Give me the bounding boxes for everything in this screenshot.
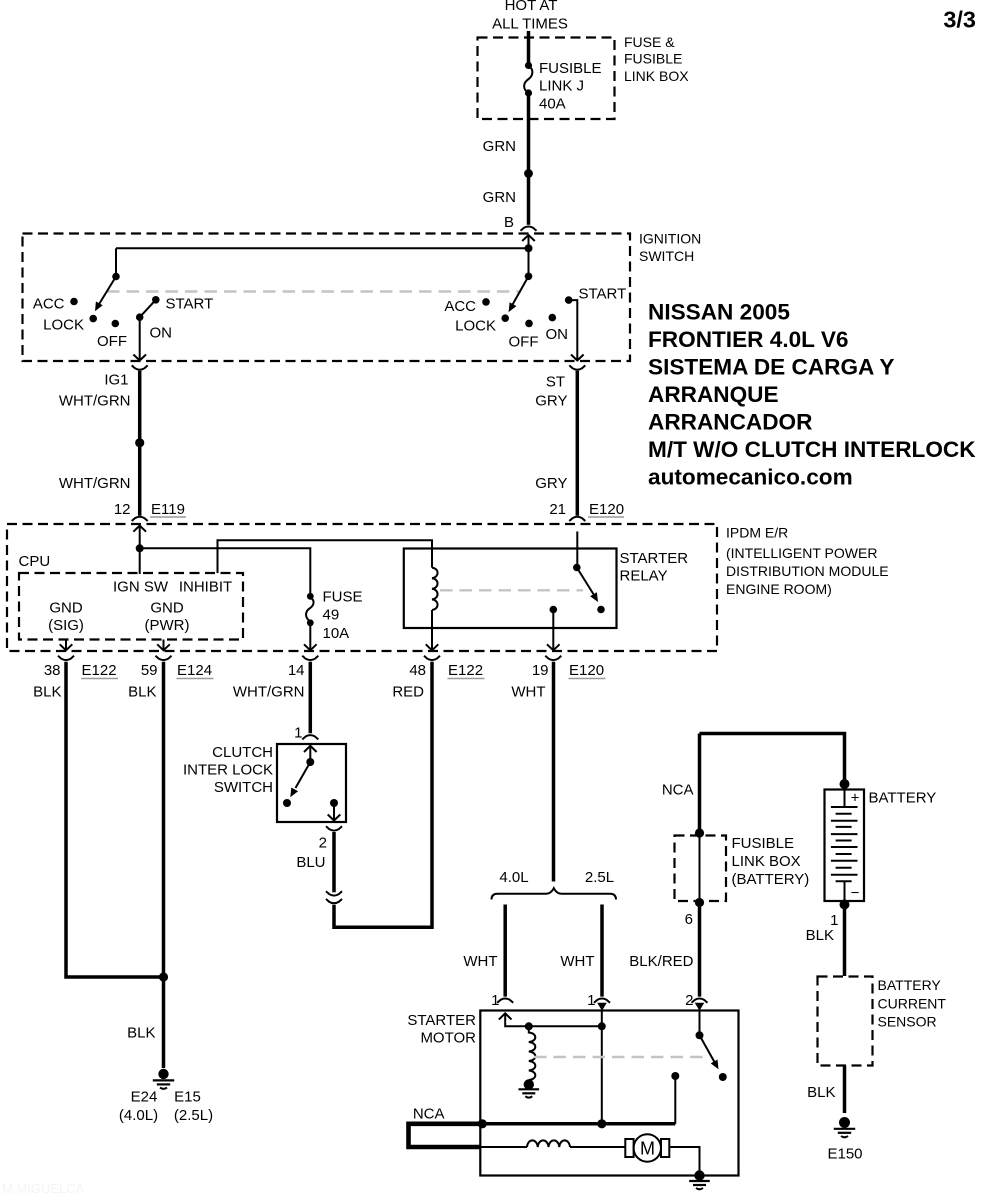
svg-text:ARRANQUE: ARRANQUE <box>648 382 779 407</box>
wire GRY ST to IPDM pin 21 <box>535 371 577 516</box>
starter relay coil <box>432 568 438 610</box>
svg-text:LINK BOX: LINK BOX <box>624 68 689 84</box>
svg-text:GND: GND <box>49 600 83 617</box>
entry arrow (filled) starter pin 1 (2.5L) <box>597 1003 607 1011</box>
svg-text:59: 59 <box>141 662 158 679</box>
connector cup pin 59 <box>156 656 172 660</box>
svg-text:+: + <box>851 790 860 807</box>
svg-text:(INTELLIGENT POWER: (INTELLIGENT POWER <box>726 545 877 561</box>
right switch feed wire <box>528 248 530 276</box>
relay output contact to pin 19 <box>550 606 558 614</box>
svg-text:START: START <box>166 296 214 313</box>
svg-text:FUSIBLE: FUSIBLE <box>732 835 795 852</box>
GND (PWR) pin label <box>145 600 190 635</box>
junction on GRN wire <box>524 169 533 178</box>
battery positive terminal junction <box>840 779 850 789</box>
svg-text:SWITCH: SWITCH <box>214 779 273 796</box>
title text block <box>648 300 976 490</box>
svg-text:1: 1 <box>491 992 499 1009</box>
svg-text:ARRANCADOR: ARRANCADOR <box>648 410 812 435</box>
svg-text:E150: E150 <box>827 1146 862 1163</box>
label IPDM E/R (INTELLIGENT POWER DISTRIBUTION MODULE ENGINE ROOM) <box>726 525 889 598</box>
svg-text:automecanico.com: automecanico.com <box>648 465 853 490</box>
wire relay output to pin 19 exit arrow <box>547 610 560 651</box>
right switch pivot <box>525 273 533 281</box>
ground symbol (solenoid coil) <box>519 1089 540 1097</box>
svg-text:48: 48 <box>409 662 426 679</box>
wire START contact to ST exit arrow <box>569 300 584 360</box>
battery negative terminal junction / pin 1 <box>840 900 850 910</box>
svg-text:E124: E124 <box>177 662 212 679</box>
svg-text:WHT/GRN: WHT/GRN <box>59 475 131 492</box>
wire WHT (2.5L) to starter motor pin 1 <box>600 905 604 997</box>
fuse 49 10A (element symbol) <box>306 593 314 626</box>
entry arrow starter pin 1 (4.0L) inside box <box>499 1013 529 1026</box>
svg-text:BLK: BLK <box>806 927 834 944</box>
left switch contact OFF <box>112 320 120 328</box>
wire motor to ground <box>669 1147 699 1176</box>
relay contact (movable) <box>573 564 581 572</box>
left switch contact ACC <box>70 298 78 306</box>
clutch switch arm <box>290 762 310 797</box>
svg-text:STARTER: STARTER <box>407 1012 476 1029</box>
junction solenoid coil top <box>525 1022 533 1030</box>
junction pin 1 (2.5L) at bus <box>597 1119 606 1128</box>
svg-text:LINK BOX: LINK BOX <box>732 853 801 870</box>
svg-text:OFF: OFF <box>509 334 539 351</box>
svg-text:FUSE &: FUSE & <box>624 34 675 50</box>
svg-text:BATTERY: BATTERY <box>869 790 937 807</box>
svg-text:−: − <box>851 885 860 902</box>
entry arrow into clutch switch <box>304 746 317 762</box>
wire BLU clutch pin 2 down <box>332 832 336 892</box>
entry arrow pin B into ignition switch <box>522 235 535 248</box>
svg-text:WHT/GRN: WHT/GRN <box>59 393 131 410</box>
svg-text:(SIG): (SIG) <box>48 617 84 634</box>
solenoid switch contact (movable) <box>696 1031 704 1039</box>
battery internal cells <box>831 790 858 902</box>
svg-text:BLK: BLK <box>127 1025 155 1042</box>
pin 14 labels <box>233 662 305 701</box>
svg-text:IGNITION: IGNITION <box>639 231 701 247</box>
svg-text:E119: E119 <box>151 501 185 518</box>
svg-text:ON: ON <box>150 325 173 342</box>
connector cup IG1 exit <box>132 365 148 369</box>
wire IGN SW into CPU <box>139 548 141 574</box>
left switch feed wire <box>115 248 117 276</box>
connector cup pin 14 <box>302 656 318 660</box>
ignition switch (dashed enclosure) <box>23 234 631 362</box>
svg-text:IPDM E/R: IPDM E/R <box>726 525 788 541</box>
wire ON contact down to IG1 exit arrow <box>133 317 146 360</box>
right switch arm (wiper) <box>509 276 529 312</box>
svg-text:2: 2 <box>685 992 693 1009</box>
wire junction to fuse 49 <box>140 548 311 596</box>
svg-text:BLK: BLK <box>128 684 156 701</box>
svg-text:(BATTERY): (BATTERY) <box>732 871 810 888</box>
connector cup clutch pin 1 <box>302 735 318 739</box>
wire BLK current sensor to ground E150 <box>843 1066 847 1114</box>
exit arrow clutch pin 2 <box>328 803 341 821</box>
clutch switch pivot contact <box>306 758 314 766</box>
svg-text:38: 38 <box>44 662 61 679</box>
label FUSE &amp; FUSIBLE LINK BOX <box>624 34 689 84</box>
motor M1 (armature symbol) <box>625 1134 669 1161</box>
svg-text:FRONTIER 4.0L V6: FRONTIER 4.0L V6 <box>648 327 848 352</box>
svg-text:4.0L: 4.0L <box>499 869 528 886</box>
mechanical link (gray dashed) between switch halves <box>107 290 521 292</box>
relay contact arm <box>577 568 598 603</box>
connector cup clutch pin 2 <box>326 826 342 830</box>
svg-text:HOT AT: HOT AT <box>505 0 558 14</box>
junction at fusible link box (battery) bottom / pin 6 <box>695 898 704 907</box>
ground E150 symbol <box>834 1117 855 1137</box>
connector cup pin 38 <box>58 656 74 660</box>
svg-text:M: M <box>640 1139 655 1159</box>
svg-text:E15: E15 <box>174 1089 201 1106</box>
svg-text:(PWR): (PWR) <box>145 617 190 634</box>
battery (solid box) <box>825 790 865 902</box>
inline connector on BLU wire (two cups) <box>326 891 342 903</box>
solenoid pull-in coil <box>529 1026 536 1080</box>
CPU (dashed enclosure) <box>19 573 243 640</box>
wire BLK/RED battery feed down to starter pin 2 <box>698 734 702 997</box>
svg-text:OFF: OFF <box>97 333 127 350</box>
junction node IGN SW feed <box>136 544 144 552</box>
svg-text:(4.0L): (4.0L) <box>119 1107 158 1124</box>
svg-text:MOTOR: MOTOR <box>420 1030 476 1047</box>
connector cup starter pin 2 <box>692 999 708 1003</box>
svg-text:6: 6 <box>685 911 693 928</box>
svg-text:IGN SW: IGN SW <box>113 579 169 596</box>
connector cup pin 19 <box>545 656 561 660</box>
svg-text:1: 1 <box>587 992 595 1009</box>
ground E24/E15 symbol <box>153 1069 174 1089</box>
pin 38 / E122 labels <box>33 662 118 701</box>
right switch contact START <box>565 296 573 304</box>
right switch contact ON <box>549 314 557 322</box>
right switch contact ACC <box>482 298 490 306</box>
fusible link box (battery) dashed enclosure <box>675 836 727 902</box>
fuse &amp; fusible link box (dashed enclosure) <box>478 38 615 120</box>
label FUSIBLE LINK J 40A <box>539 60 602 113</box>
svg-text:NCA: NCA <box>662 782 694 799</box>
svg-text:12: 12 <box>114 501 131 518</box>
svg-text:BLU: BLU <box>296 854 325 871</box>
svg-text:START: START <box>579 286 627 303</box>
svg-text:ACC: ACC <box>444 298 476 315</box>
wire pin 21 to relay contact <box>576 532 578 568</box>
label FUSE 49 10A <box>323 589 363 643</box>
GND (SIG) pin label <box>48 600 84 635</box>
svg-text:LOCK: LOCK <box>43 317 84 334</box>
pin 21 / connector E120 labels <box>549 501 624 518</box>
svg-text:RED: RED <box>392 684 424 701</box>
wire to field coil <box>480 1146 527 1148</box>
wire GRN junction to ignition switch pin B <box>527 174 531 225</box>
mechanical link (gray dashed) relay coil to contact arm <box>440 589 583 591</box>
wire BLU to RED wire of pin 48 <box>334 662 432 928</box>
wire relay coil to pin 48 exit arrow <box>426 610 439 650</box>
connector cup starter pin 1 (2.5L) <box>594 999 610 1003</box>
svg-text:2.5L: 2.5L <box>585 869 614 886</box>
svg-text:GRN: GRN <box>483 138 516 155</box>
connector cup starter pin 1 (4.0L) <box>497 999 513 1003</box>
ground labels E24 (4.0L) / E15 (2.5L) <box>119 1089 213 1125</box>
connector cup at pin B <box>521 227 537 231</box>
right switch contact OFF <box>525 320 533 328</box>
svg-text:(2.5L): (2.5L) <box>174 1107 213 1124</box>
svg-text:STARTER: STARTER <box>620 550 689 567</box>
IPDM E/R (dashed enclosure) <box>7 524 717 651</box>
wire BLK pin 38 down and over to ground junction <box>66 662 164 977</box>
wire WHT/GRN pin 14 to clutch interlock switch <box>309 662 313 733</box>
brace engine options 4.0L / 2.5L <box>492 888 617 899</box>
svg-text:ENGINE ROOM): ENGINE ROOM) <box>726 581 832 597</box>
label STARTER MOTOR <box>407 1012 476 1047</box>
solenoid switch arm <box>700 1035 719 1069</box>
left switch contact ON <box>136 313 144 321</box>
wire GRN fusible link to junction <box>527 93 531 174</box>
junction pin 1 (2.5L) top <box>598 1022 606 1030</box>
relay fixed contact (right) <box>597 606 605 614</box>
svg-text:E122: E122 <box>82 662 117 679</box>
right switch contact LOCK <box>501 314 509 322</box>
clutch switch output contact (right) <box>330 799 338 807</box>
GND (SIG) exit arrow <box>60 640 73 651</box>
svg-text:IG1: IG1 <box>104 372 128 389</box>
svg-text:INTER LOCK: INTER LOCK <box>183 762 273 779</box>
junction at fusible link box (battery) top <box>695 828 704 837</box>
left switch pivot <box>112 273 120 281</box>
svg-text:FUSE: FUSE <box>323 589 363 606</box>
GND (PWR) exit arrow <box>157 640 170 651</box>
svg-text:BATTERY: BATTERY <box>878 977 942 993</box>
svg-text:WHT: WHT <box>511 684 545 701</box>
pin 19 / E120 labels <box>511 662 605 701</box>
svg-text:GRY: GRY <box>535 393 567 410</box>
svg-text:ALL TIMES: ALL TIMES <box>492 16 568 33</box>
svg-text:14: 14 <box>288 662 305 679</box>
node B junction inside ignition switch <box>525 244 533 252</box>
starter relay K1 (solid box) <box>404 549 617 629</box>
solenoid coil ground junction <box>524 1079 534 1089</box>
svg-text:10A: 10A <box>323 625 350 642</box>
svg-text:ON: ON <box>546 326 569 343</box>
svg-text:NISSAN 2005: NISSAN 2005 <box>648 300 790 325</box>
entry arrow (filled) starter pin 2 <box>695 1003 705 1011</box>
svg-text:E122: E122 <box>448 662 483 679</box>
wire INHIBIT to starter relay coil <box>218 540 433 573</box>
pin 48 / E122 labels <box>392 662 484 701</box>
NCA cable loop (thick) <box>409 1124 482 1147</box>
svg-text:BLK: BLK <box>33 684 61 701</box>
svg-text:BLK: BLK <box>807 1084 835 1101</box>
wire BLK pin 59 down to ground <box>162 662 166 1068</box>
clutch interlock switch (solid box) <box>277 744 346 822</box>
svg-text:ACC: ACC <box>33 296 65 313</box>
svg-text:3/3: 3/3 <box>943 7 976 33</box>
svg-text:E120: E120 <box>569 662 604 679</box>
svg-text:M.MIGUELCA: M.MIGUELCA <box>2 1181 85 1193</box>
wire fuse 49 to pin 14 exit arrow <box>304 623 317 651</box>
motor bus wire (thick) <box>481 1122 675 1126</box>
label STARTER RELAY <box>620 550 689 585</box>
solenoid switch output contact <box>671 1072 679 1080</box>
junction NCA at box edge <box>478 1119 487 1128</box>
wire WHT pin 19 down to engine option brace <box>552 662 556 882</box>
left switch contact LOCK <box>89 315 97 323</box>
svg-text:DISTRIBUTION MODULE: DISTRIBUTION MODULE <box>726 563 889 579</box>
svg-text:WHT/GRN: WHT/GRN <box>233 684 305 701</box>
bridge ON to START (left) <box>140 300 156 317</box>
motor ground junction at box edge <box>694 1170 704 1180</box>
node HOT AT ALL TIMES <box>492 0 568 33</box>
label FUSIBLE LINK BOX (BATTERY) <box>732 835 810 888</box>
pin 12 / connector E119 labels <box>114 501 186 518</box>
wire WHT (4.0L) to starter motor pin 1 <box>503 905 507 997</box>
connector cup pin 48 <box>424 656 440 660</box>
svg-text:49: 49 <box>323 607 340 624</box>
battery current sensor (dashed enclosure) <box>818 977 873 1066</box>
wire across ignition switch feed <box>116 247 529 249</box>
svg-text:LINK J: LINK J <box>539 78 584 95</box>
label CLUTCH INTER LOCK SWITCH <box>183 744 273 796</box>
wire from HOT AT into fusible link box <box>527 31 531 65</box>
svg-text:NCA: NCA <box>413 1106 445 1123</box>
label BATTERY CURRENT SENSOR <box>878 977 947 1030</box>
svg-text:SISTEMA DE CARGA Y: SISTEMA DE CARGA Y <box>648 355 894 380</box>
wire WHT/GRN IG1 to IPDM pin 12 <box>59 371 144 516</box>
svg-text:CPU: CPU <box>19 553 51 570</box>
svg-text:INHIBIT: INHIBIT <box>179 579 232 596</box>
svg-text:GRN: GRN <box>483 189 516 206</box>
svg-text:SWITCH: SWITCH <box>639 248 694 264</box>
connector cup pin 12 <box>132 517 148 521</box>
wire linking pin 1 feeds <box>529 1025 602 1027</box>
left switch contact START <box>152 296 160 304</box>
svg-text:CLUTCH: CLUTCH <box>212 744 273 761</box>
svg-text:ST: ST <box>546 374 565 391</box>
ground symbol (motor) <box>689 1181 710 1189</box>
svg-text:40A: 40A <box>539 96 566 113</box>
svg-text:CURRENT: CURRENT <box>878 996 947 1012</box>
svg-text:FUSIBLE: FUSIBLE <box>539 60 602 77</box>
wire field coil to motor <box>570 1146 625 1148</box>
connector cup pin 21 <box>569 517 585 521</box>
svg-text:SENSOR: SENSOR <box>878 1014 937 1030</box>
svg-text:GRY: GRY <box>535 475 567 492</box>
clutch switch fixed contact (left) <box>283 799 291 807</box>
svg-text:M/T W/O CLUTCH INTERLOCK: M/T W/O CLUTCH INTERLOCK <box>648 437 976 462</box>
svg-text:BLK/RED: BLK/RED <box>629 953 693 970</box>
svg-text:FUSIBLE: FUSIBLE <box>624 51 682 67</box>
field coil (series winding) <box>527 1140 570 1147</box>
svg-text:WHT: WHT <box>463 953 497 970</box>
svg-text:2: 2 <box>319 835 327 852</box>
wire starter pin 2 to solenoid switch <box>699 1011 701 1036</box>
svg-text:21: 21 <box>549 501 566 518</box>
svg-text:RELAY: RELAY <box>620 568 668 585</box>
wire BLK battery to current sensor <box>843 905 847 977</box>
svg-text:E24: E24 <box>131 1089 158 1106</box>
svg-text:WHT: WHT <box>560 953 594 970</box>
svg-text:GND: GND <box>150 600 184 617</box>
mechanical link (gray dashed) solenoid to contact arm <box>534 1056 707 1058</box>
svg-text:LOCK: LOCK <box>455 318 496 335</box>
wire output contact to motor bus <box>674 1076 676 1124</box>
entry arrow pin 12 into IPDM <box>133 526 146 549</box>
left switch arm (wiper) <box>95 277 116 312</box>
fusible link J 40A (element symbol) <box>524 62 532 97</box>
svg-text:E120: E120 <box>589 501 624 518</box>
connector cup ST exit <box>569 365 585 369</box>
wire pin 1 (2.5L) through to lower bus <box>601 1011 603 1124</box>
label IGNITION SWITCH <box>639 231 701 265</box>
starter motor (solid box) <box>480 1011 738 1176</box>
svg-text:19: 19 <box>532 662 549 679</box>
wire battery positive feed (top run) <box>700 734 845 785</box>
svg-text:1: 1 <box>294 725 302 742</box>
junction of BLK wires <box>159 972 168 981</box>
solenoid switch fixed contact (lower right) <box>719 1073 727 1081</box>
svg-text:B: B <box>504 214 514 231</box>
pin 59 / E124 labels <box>128 662 213 701</box>
labels 4.0L / 2.5L <box>499 869 614 886</box>
